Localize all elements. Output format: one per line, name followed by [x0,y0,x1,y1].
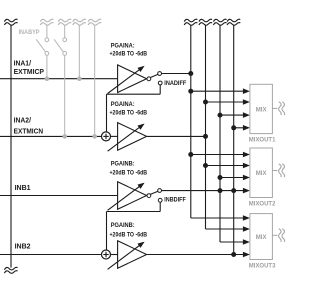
svg-text:EXTMICN: EXTMICN [14,128,43,135]
svg-text:MIXOUT3: MIXOUT3 [249,262,276,269]
svg-text:PGAINB:: PGAINB: [111,161,135,168]
svg-text:MIX: MIX [256,170,267,177]
svg-text:INB1: INB1 [15,185,31,192]
svg-text:INA2/: INA2/ [14,118,31,125]
svg-text:+20dB TO -6dB: +20dB TO -6dB [110,169,148,176]
svg-text:PGAINA:: PGAINA: [111,101,135,108]
svg-text:INBDIFF: INBDIFF [164,197,186,204]
svg-text:+20dB TO -6dB: +20dB TO -6dB [110,50,148,57]
svg-text:MIXOUT1: MIXOUT1 [249,136,276,143]
svg-text:PGAINA:: PGAINA: [111,43,135,50]
svg-text:+20dB TO -6dB: +20dB TO -6dB [110,231,148,238]
svg-text:INADIFF: INADIFF [164,80,186,87]
svg-text:INABYP: INABYP [19,29,40,36]
svg-text:MIXOUT2: MIXOUT2 [249,200,276,207]
svg-text:+20dB TO -6dB: +20dB TO -6dB [110,110,148,117]
svg-text:EXTMICP: EXTMICP [14,69,45,76]
svg-text:INA1/: INA1/ [14,61,31,68]
svg-text:PGAINB:: PGAINB: [111,222,135,229]
svg-text:MIX: MIX [256,234,267,241]
svg-text:INB2: INB2 [15,243,31,250]
svg-text:MIX: MIX [256,106,267,113]
